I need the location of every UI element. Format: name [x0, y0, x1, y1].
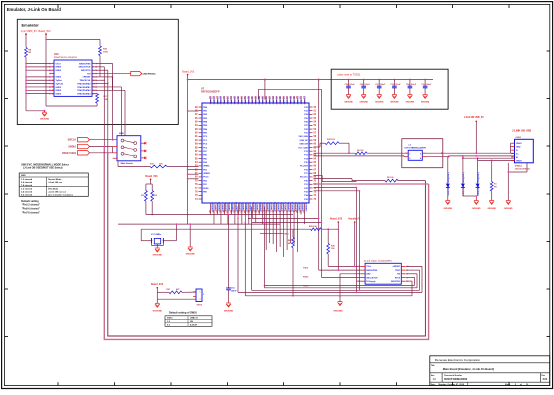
svg-text:TDI: TDI: [397, 274, 401, 276]
svg-text:A-DCM: A-DCM: [190, 324, 197, 327]
svg-text:nRESET: nRESET: [393, 266, 401, 268]
svg-text:P55/TD3: P55/TD3: [263, 95, 265, 104]
svg-text:J-link OB USB_5V: J-link OB USB_5V: [464, 117, 484, 119]
svg-text:VTref: VTref: [366, 266, 371, 268]
svg-text:R34 1K2: R34 1K2: [327, 138, 336, 141]
svg-text:18: 18: [93, 90, 95, 92]
svg-text:P26/TD2: P26/TD2: [287, 95, 289, 104]
svg-text:19: 19: [52, 93, 54, 95]
svg-text:5: 5: [53, 70, 54, 72]
svg-text:P13/TD3: P13/TD3: [249, 95, 251, 104]
svg-text:SWDIO/TMS: SWDIO/TMS: [366, 270, 378, 272]
svg-text:Renesas Electronics Corporatio: Renesas Electronics Corporation: [435, 358, 481, 362]
svg-text:TRACECLK: TRACECLK: [80, 79, 92, 82]
svg-text:Handle_5V: Handle_5V: [349, 219, 361, 221]
svg-text:"Pin1-2 shorted": "Pin1-2 shorted": [22, 204, 40, 207]
svg-text:2154-TY0-07-L-7N-007-K: 2154-TY0-07-L-7N-007-K: [54, 56, 77, 59]
svg-text:D-: D-: [516, 150, 518, 152]
svg-text:4: 4: [93, 66, 94, 69]
svg-text:TXD2: TXD2: [303, 267, 309, 269]
svg-text:0R: 0R: [28, 52, 31, 54]
svg-text:GROUND: GROUND: [375, 102, 384, 104]
svg-text:J-Link OB use: J-Link OB use: [48, 182, 63, 184]
svg-text:1-2 shorted: 1-2 shorted: [21, 187, 33, 190]
svg-text:R20UT4360EJ0300: R20UT4360EJ0300: [444, 377, 467, 381]
svg-text:3-4 shorted: 3-4 shorted: [21, 181, 33, 184]
svg-text:C58: C58: [360, 84, 363, 86]
svg-text:15: 15: [52, 87, 54, 89]
svg-text:SWCLK/TCK: SWCLK/TCK: [79, 67, 92, 69]
svg-text:TRACEDATA0: TRACEDATA0: [77, 82, 91, 85]
svg-text:GROUND: GROUND: [487, 208, 496, 210]
svg-text:GND5: GND5: [56, 90, 62, 92]
svg-text:20: 20: [93, 93, 95, 95]
svg-text:6: 6: [93, 70, 94, 72]
svg-text:J-LINK OB USB: J-LINK OB USB: [512, 129, 531, 133]
svg-text:J-Link_10pin_header(CHP): J-Link_10pin_header(CHP): [364, 260, 392, 262]
svg-text:Monday, October 07, 2019: Monday, October 07, 2019: [439, 383, 465, 386]
svg-text:9: 9: [53, 77, 54, 79]
svg-text:5-6 shorted: 5-6 shorted: [21, 194, 33, 197]
svg-text:TRACEDATA1: TRACEDATA1: [77, 86, 91, 89]
svg-text:1-2 shorted: 1-2 shorted: [21, 178, 33, 181]
svg-text:SW6: SW6: [119, 133, 125, 135]
svg-text:swMDP450db: swMDP450db: [142, 73, 157, 76]
svg-text:R12: R12: [154, 195, 157, 197]
svg-text:P84/TD2: P84/TD2: [272, 95, 275, 104]
svg-text:RESET-SIGN: RESET-SIGN: [62, 153, 76, 155]
svg-text:AVSS: AVSS: [203, 187, 209, 190]
svg-text:GROUND: GROUND: [406, 102, 415, 104]
svg-text:GROUND: GROUND: [444, 208, 453, 210]
svg-text:10: 10: [93, 77, 95, 79]
svg-text:RXD2: RXD2: [303, 277, 309, 279]
svg-text:J-Link OB not use: J-Link OB not use: [48, 191, 67, 194]
svg-text:P97/TD1: P97/TD1: [242, 95, 244, 104]
svg-text:place near to TXD21: place near to TXD21: [338, 74, 361, 77]
svg-text:P39/TD1: P39/TD1: [256, 95, 258, 104]
svg-text:Board_3V3: Board_3V3: [39, 30, 52, 33]
svg-text:GND: GND: [516, 146, 521, 148]
svg-text:C59: C59: [390, 84, 393, 86]
svg-text:100uF: 100uF: [395, 84, 401, 86]
svg-text:C56: C56: [345, 84, 348, 86]
svg-text:P13/TD1: P13/TD1: [214, 95, 216, 104]
svg-text:1: 1: [53, 63, 54, 65]
svg-text:100uF: 100uF: [364, 84, 370, 86]
svg-text:USB_DM: USB_DM: [299, 144, 308, 146]
svg-text:P71/TD1: P71/TD1: [269, 95, 271, 104]
svg-text:TXD1: TXD1: [284, 234, 290, 236]
svg-text:VREFL: VREFL: [203, 166, 210, 168]
svg-text:5V-Supply: 5V-Supply: [366, 281, 376, 283]
svg-text:X1 12MHz: X1 12MHz: [151, 234, 162, 236]
svg-text:P26/TD0: P26/TD0: [252, 95, 254, 104]
svg-text:P00/TD0: P00/TD0: [280, 95, 282, 104]
svg-text:Default setting: Default setting: [21, 200, 39, 203]
svg-text:1: 1: [200, 292, 201, 294]
svg-text:P55/TD1: P55/TD1: [297, 95, 299, 104]
svg-text:GND: GND: [366, 274, 371, 276]
svg-text:PLLVCC: PLLVCC: [300, 177, 308, 179]
svg-text:10K: 10K: [159, 164, 163, 166]
svg-text:(J-Link OB USED/NOT USE Select: (J-Link OB USED/NOT USE Select): [23, 166, 62, 169]
svg-text:P84/TD0: P84/TD0: [237, 95, 240, 104]
svg-text:1 pin VSPF_5V: 1 pin VSPF_5V: [21, 30, 38, 33]
svg-text:3: 3: [53, 67, 54, 69]
svg-text:RTCK: RTCK: [395, 277, 401, 279]
svg-text:14: 14: [93, 82, 95, 85]
svg-text:3: 3: [409, 158, 410, 160]
svg-text:R6 100: R6 100: [357, 150, 364, 152]
svg-text:GROUND: GROUND: [359, 102, 368, 104]
svg-text:CN2: CN2: [54, 54, 59, 56]
svg-text:GROUND: GROUND: [153, 310, 163, 312]
svg-text:3.00: 3.00: [543, 379, 548, 381]
svg-text:Emulator, J-Link On Board: Emulator, J-Link On Board: [7, 7, 62, 12]
svg-text:SW10: SW10: [167, 318, 173, 320]
svg-text:100uF: 100uF: [411, 84, 417, 86]
svg-text:7: 7: [53, 73, 54, 75]
svg-text:PVCC: PVCC: [203, 177, 209, 179]
svg-text:7-8 shorted: 7-8 shorted: [21, 184, 33, 187]
svg-text:12: 12: [93, 80, 95, 82]
svg-text:2: 2: [420, 153, 421, 155]
svg-text:VBUS: VBUS: [516, 160, 522, 162]
svg-text:Board_3V3: Board_3V3: [330, 219, 343, 221]
svg-text:GND5: GND5: [56, 77, 62, 79]
svg-text:TgRsrt: TgRsrt: [56, 79, 63, 82]
svg-text:P68/TD2: P68/TD2: [231, 95, 233, 104]
svg-text:P26/TD2: P26/TD2: [217, 95, 219, 104]
svg-text:DLP11TB800UL2(DNF): DLP11TB800UL2(DNF): [405, 147, 427, 149]
svg-text:PLLVSS: PLLVSS: [300, 166, 308, 168]
svg-text:Normal Mode: Normal Mode: [48, 178, 62, 181]
svg-text:P42/TD0: P42/TD0: [293, 95, 296, 104]
svg-text:USB2: USB2: [516, 137, 522, 139]
svg-text:1: 1: [409, 153, 410, 155]
svg-text:P00/TD0: P00/TD0: [210, 95, 212, 104]
svg-text:SWCLK: SWCLK: [68, 140, 77, 142]
svg-text:SWDIO: SWDIO: [68, 147, 76, 149]
svg-text:SHIELD: SHIELD: [515, 166, 523, 168]
svg-text:GROUND: GROUND: [224, 310, 234, 312]
svg-text:P55/TD1: P55/TD1: [228, 95, 230, 104]
svg-text:11: 11: [52, 80, 54, 82]
svg-text:TDI: TDI: [87, 73, 91, 75]
svg-text:R5F56216BDFP: R5F56216BDFP: [201, 91, 220, 94]
svg-text:100uF: 100uF: [349, 84, 355, 86]
svg-text:GROUND: GROUND: [186, 254, 196, 256]
svg-text:VTref: VTref: [56, 63, 61, 65]
svg-text:GROUND: GROUND: [390, 102, 399, 104]
svg-text:100uF: 100uF: [380, 84, 386, 86]
svg-text:Slide Switch: Slide Switch: [121, 162, 134, 165]
svg-text:2: 2: [93, 63, 94, 65]
svg-text:GROUND: GROUND: [344, 102, 353, 104]
svg-text:3: 3: [200, 299, 201, 301]
svg-text:3-4 shorted: 3-4 shorted: [21, 191, 33, 194]
svg-text:GND5: GND5: [56, 70, 62, 72]
svg-text:R28 10K: R28 10K: [309, 226, 317, 228]
svg-text:SWO/TDO: SWO/TDO: [391, 281, 401, 283]
svg-text:VBUS: VBUS: [516, 143, 522, 145]
svg-text:TgPwrD: TgPwrD: [56, 83, 64, 85]
svg-text:"Pin5-6 shorted": "Pin5-6 shorted": [22, 207, 40, 210]
svg-text:C19: C19: [421, 84, 424, 86]
svg-text:EVL Mode: EVL Mode: [48, 188, 59, 190]
svg-text:Date:: Date:: [431, 383, 436, 386]
svg-text:P68/TD2: P68/TD2: [301, 95, 303, 104]
svg-text:17: 17: [52, 90, 54, 92]
svg-text:P71/TD3: P71/TD3: [235, 95, 237, 104]
svg-text:10K: 10K: [331, 248, 335, 250]
svg-text:Board_3V3: Board_3V3: [182, 70, 195, 73]
svg-text:Document Number: Document Number: [444, 374, 462, 377]
svg-text:P39/TD3: P39/TD3: [221, 95, 223, 104]
svg-text:VREFH: VREFH: [203, 173, 210, 175]
svg-text:GND5: GND5: [56, 67, 62, 69]
svg-text:SWDIO/TMS: SWDIO/TMS: [79, 63, 91, 65]
svg-text:13: 13: [52, 83, 54, 85]
svg-text:(use if another emulator): (use if another emulator): [48, 194, 73, 197]
svg-text:GROUND: GROUND: [421, 102, 430, 104]
svg-text:Size: Size: [431, 375, 435, 377]
svg-text:P13/TD1: P13/TD1: [283, 95, 285, 104]
svg-text:Main Board [Emulator, J-Link O: Main Board [Emulator, J-Link On Board]: [443, 367, 494, 371]
svg-text:4: 4: [420, 157, 421, 160]
svg-text:TRACEDATA2: TRACEDATA2: [77, 89, 91, 92]
svg-text:2: 2: [203, 294, 204, 296]
svg-text:TRST: TRST: [395, 270, 401, 272]
svg-text:GROUND: GROUND: [504, 208, 513, 210]
svg-text:R11: R11: [141, 195, 144, 197]
svg-text:C57: C57: [375, 84, 378, 86]
svg-text:Sheet: Sheet: [505, 383, 511, 386]
svg-text:Default setting of SW10: Default setting of SW10: [169, 312, 198, 315]
svg-text:8: 8: [93, 73, 94, 75]
svg-text:1000: 1000: [103, 52, 109, 54]
svg-text:P00/TD2: P00/TD2: [245, 95, 247, 104]
svg-text:P39/TD3: P39/TD3: [290, 95, 292, 104]
svg-text:ZX62-B-5PA(33): ZX62-B-5PA(33): [515, 167, 530, 170]
svg-text:Emulator: Emulator: [22, 23, 40, 28]
svg-text:GROUND: GROUND: [40, 118, 50, 120]
svg-text:P42/TD0: P42/TD0: [223, 95, 226, 104]
svg-text:TRACEDATA3: TRACEDATA3: [77, 92, 91, 95]
svg-text:Board_3V3: Board_3V3: [151, 284, 164, 286]
svg-text:SWO/TDO: SWO/TDO: [81, 70, 91, 72]
svg-text:nRESET: nRESET: [83, 77, 92, 79]
svg-text:GND5: GND5: [56, 93, 62, 95]
svg-text:P68/TD0: P68/TD0: [266, 95, 268, 104]
svg-text:P71/TD3: P71/TD3: [304, 95, 306, 104]
svg-text:"Pin7-8 shorted": "Pin7-8 shorted": [22, 211, 40, 214]
svg-text:USB_DP: USB_DP: [300, 140, 309, 142]
svg-text:VCC_USB: VCC_USB: [298, 147, 308, 149]
svg-text:GND5: GND5: [56, 87, 62, 89]
svg-text:USB0_E: USB0_E: [190, 318, 198, 320]
svg-text:GROUND: GROUND: [153, 255, 163, 257]
svg-text:VSS_USB: VSS_USB: [298, 136, 308, 138]
svg-text:100nF: 100nF: [231, 290, 238, 292]
svg-text:R5 100: R5 100: [387, 177, 394, 179]
svg-text:GROUND: GROUND: [333, 311, 343, 313]
svg-text:SWCLK/TCK: SWCLK/TCK: [366, 277, 378, 279]
svg-text:100uF: 100uF: [426, 84, 432, 86]
svg-text:Board_3V3: Board_3V3: [145, 176, 158, 178]
svg-text:16: 16: [93, 87, 95, 89]
svg-text:GROUND: GROUND: [472, 208, 481, 210]
svg-text:P97/TD3: P97/TD3: [276, 95, 278, 104]
svg-text:SW10: SW10: [197, 305, 203, 307]
